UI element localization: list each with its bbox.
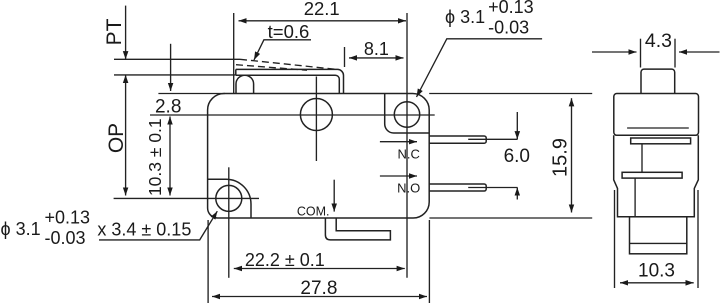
svg-text:N.C: N.C: [398, 147, 420, 162]
free position line: [114, 58, 240, 60]
dimension 27.8: [212, 296, 427, 298]
svg-text:22.2 ± 0.1: 22.2 ± 0.1: [245, 250, 325, 270]
10.3 extension lines: [614, 190, 616, 288]
N.C arrow: [380, 141, 417, 143]
svg-text:4.3: 4.3: [645, 30, 672, 52]
10.3 dimension line: [169, 117, 171, 196]
svg-text:OP: OP: [105, 123, 128, 153]
side view base boss: [630, 217, 687, 254]
top-right mounting boss: [385, 94, 430, 134]
N.O terminal centerline: [468, 187, 517, 189]
switch body outline: [208, 94, 430, 219]
27.8 extension lines: [207, 220, 209, 303]
plunger bump under lever: [236, 75, 254, 93]
PT arrow: [125, 6, 127, 60]
body bottom edge right extension: [429, 217, 592, 219]
N.O arrow: [380, 175, 417, 177]
svg-text:ϕ 3.1: ϕ 3.1: [445, 7, 485, 27]
svg-text:ϕ 3.1: ϕ 3.1: [1, 219, 41, 239]
bottom-left hole horizontal centerline: [114, 197, 259, 199]
4.3 right arrow: [679, 51, 720, 53]
svg-text:COM.: COM.: [297, 205, 330, 219]
lever free position dashed lower: [236, 65, 307, 71]
dimension 22.1 extension line left: [233, 13, 235, 94]
phi 3.1 top leader: [417, 39, 543, 97]
side view base inner line: [630, 242, 687, 244]
4.3 extension lines: [640, 39, 642, 68]
lever free position dashed upper: [240, 59, 336, 69]
svg-text:t=0.6: t=0.6: [268, 21, 310, 42]
dimension 8.1: [349, 57, 404, 59]
middle circle (plunger base): [300, 99, 332, 131]
svg-text:22.1: 22.1: [304, 0, 340, 19]
operating position line: [114, 74, 236, 76]
svg-text:10.3 ± 0.1: 10.3 ± 0.1: [145, 118, 165, 196]
side view N.O terminal edge: [622, 172, 682, 178]
svg-text:PT: PT: [103, 18, 126, 45]
side view connector line 1: [641, 144, 643, 173]
svg-text:x 3.4 ± 0.15: x 3.4 ± 0.15: [97, 220, 191, 240]
side view connector line 2: [634, 178, 636, 217]
dimension 22.2: [234, 268, 405, 270]
6.0 upper arrow: [516, 112, 518, 139]
4.3 left arrow: [592, 51, 637, 53]
COM terminal bent: [325, 218, 390, 240]
svg-text:27.8: 27.8: [300, 278, 337, 299]
N.C terminal: [429, 136, 486, 143]
svg-text:-0.03: -0.03: [45, 228, 86, 248]
svg-text:10.3: 10.3: [638, 260, 675, 281]
dimension 10.3: [620, 282, 694, 284]
svg-text:-0.03: -0.03: [488, 18, 529, 38]
COM arrow: [333, 180, 335, 212]
bottom-left mounting boss: [208, 179, 251, 218]
side view button: [641, 69, 675, 93]
N.C terminal centerline: [468, 138, 517, 140]
dimension 22.1: [239, 20, 407, 22]
lever inner line: [236, 75, 339, 93]
svg-text:+0.13: +0.13: [488, 0, 534, 17]
horizontal centerline through middle circle and top-right hole: [150, 114, 435, 116]
dimension 15.9: [571, 98, 573, 212]
svg-text:8.1: 8.1: [364, 39, 389, 59]
middle circle vertical centerline: [315, 77, 317, 162]
6.0 lower arrow: [516, 188, 518, 200]
body top extension line left: [158, 93, 225, 95]
side view top cover: [614, 94, 699, 136]
body top edge right extension: [429, 93, 592, 95]
bottom-left mounting hole: [216, 185, 242, 211]
side view lower housing: [614, 135, 699, 217]
dimension 8.1 extension line left: [344, 47, 346, 67]
svg-text:N.O: N.O: [397, 181, 420, 196]
svg-text:6.0: 6.0: [504, 146, 530, 167]
bottom label leader: [99, 211, 217, 240]
svg-text:+0.13: +0.13: [45, 208, 91, 228]
OP arrow line: [125, 75, 127, 196]
2.8 upper arrow: [170, 44, 172, 91]
top-right mounting hole: [394, 102, 419, 127]
t=0.6 leader line: [254, 40, 311, 60]
lever left edge: [235, 69, 237, 75]
N.O terminal: [429, 184, 486, 191]
side view cover inner line: [627, 127, 689, 129]
bottom-left hole vertical centerline: [228, 167, 230, 277]
side view N.C terminal edge: [631, 138, 691, 144]
lever outer line: [236, 69, 344, 93]
top-right hole vertical centerline: [406, 13, 408, 278]
svg-text:15.9: 15.9: [550, 138, 572, 177]
svg-text:2.8: 2.8: [155, 97, 181, 118]
